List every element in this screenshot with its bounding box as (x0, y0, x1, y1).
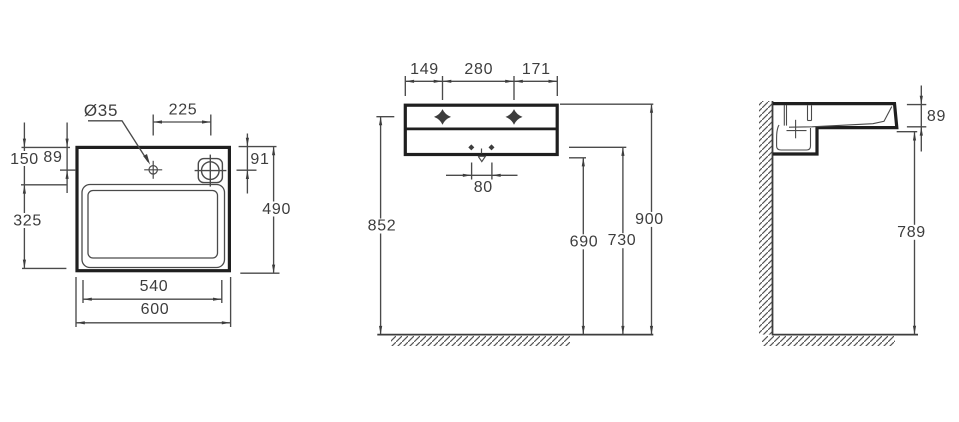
dimension line 150 (23, 123, 25, 198)
extension line top right (y=146.6) (239, 146, 277, 148)
labels right view (896, 108, 946, 241)
svg-text:80: 80 (474, 179, 493, 196)
arrows 600 (76, 321, 85, 324)
arrows 852 (379, 117, 382, 126)
extension line bottom rim (left, y=268.4) (22, 267, 66, 269)
arrows 171 (514, 80, 523, 83)
arrows 730 (621, 147, 624, 156)
dimensions of middle view (376, 76, 653, 335)
halo 730 (606, 233, 638, 248)
bowl inner profile (789, 107, 892, 128)
arrow 325 bottom (down, tip y=268.4) (23, 260, 26, 269)
top extension line (left side, y=147.4) (22, 146, 71, 148)
extension line bottom rim (right, y=273.2) (240, 272, 279, 274)
dimension line 325 (23, 198, 25, 269)
dimension line 900 (651, 104, 653, 334)
extension line 900 (560, 103, 653, 105)
dimension line 852 (380, 117, 382, 335)
svg-text:730: 730 (608, 232, 637, 249)
svg-text:150: 150 (10, 151, 39, 168)
arrows 540 (83, 298, 92, 301)
arrow 150 top (down, tip y=147.4) (23, 139, 26, 148)
arrow 789 top (up, tip 131.9) (913, 132, 916, 141)
dimension line 690 (582, 158, 584, 335)
tap hole (square with circle) (195, 155, 227, 187)
halo 900 (634, 212, 666, 227)
sump inner profile (777, 125, 811, 150)
dimension line 80 (446, 174, 518, 176)
floor line right (772, 334, 918, 336)
svg-text:171: 171 (522, 61, 551, 78)
extension lines 225 (152, 115, 154, 136)
drain centre cross (795, 120, 797, 139)
dimensions of left view (21, 115, 280, 328)
svg-text:490: 490 (262, 201, 291, 218)
dimension line 89 (left) (66, 123, 68, 194)
arrowheads right view (913, 96, 923, 335)
dimension line 789 (914, 132, 916, 335)
floor hatch right (762, 336, 895, 346)
basin outer rim (plan) (77, 147, 229, 270)
arrow 490 top (up, tip y=146.6) (272, 147, 275, 156)
arrow 789 bottom (down, tip 334.4) (913, 326, 916, 335)
extension lines 80 (471, 163, 473, 180)
arrow 89 bottom (up, tip 126.8) (920, 127, 923, 136)
leader line for Ø35 (88, 121, 148, 162)
arrow 490 bottom (down, tip y=273.2) (272, 265, 275, 274)
arrow 89 bottom (up, tip y=170.1) (66, 170, 69, 179)
basin front outline (405, 105, 557, 154)
svg-text:89: 89 (43, 149, 62, 166)
dimension line 149/280/171 (405, 80, 557, 82)
wall line (772, 101, 774, 335)
arrows 900 (650, 104, 653, 113)
halo 325 (12, 213, 43, 228)
extension line 690 (569, 157, 586, 159)
svg-text:852: 852 (368, 218, 397, 235)
faucet hole cross left (434, 109, 451, 125)
arrowheads middle view (379, 80, 653, 335)
dimension line 225 (153, 121, 211, 123)
svg-text:Ø35: Ø35 (84, 101, 118, 120)
wall hatch (759, 101, 773, 335)
halo 789 (896, 225, 928, 240)
floor line middle (377, 334, 653, 336)
svg-text:225: 225 (169, 101, 198, 118)
rim split line (405, 127, 557, 130)
dimension line 540 (83, 298, 222, 300)
svg-text:900: 900 (635, 211, 664, 228)
svg-text:600: 600 (141, 301, 170, 318)
svg-text:149: 149 (410, 61, 439, 78)
labels left view (9, 101, 292, 318)
arrow 89 top (down, tip y=147.4) (66, 139, 69, 148)
arrow 91 top (down, tip y=146.6) (246, 138, 249, 147)
basin bowl inner edge (88, 191, 218, 259)
faucet-hole centre mark (144, 161, 162, 179)
halo 690 (568, 234, 600, 249)
extension line tap-centre height (right, y=170.2) (237, 169, 257, 171)
halo 852 (366, 219, 398, 234)
extension line 852 top (376, 116, 394, 118)
arrows 690 (582, 158, 585, 167)
basin side profile (773, 104, 897, 154)
extension lines 540 (82, 280, 84, 303)
svg-text:690: 690 (570, 233, 599, 250)
faucet hole section (807, 105, 809, 120)
svg-text:325: 325 (13, 212, 42, 229)
extension line 789 top (897, 131, 918, 133)
dimension line 600 (76, 322, 231, 324)
arrow of Ø35 leader (143, 154, 150, 165)
svg-text:89: 89 (927, 108, 946, 125)
extension line 89 bottom (907, 126, 926, 128)
overflow channel lines (783, 105, 785, 126)
dimensions of right view (897, 86, 927, 335)
extension line inner-rim (y=184.8) (21, 184, 67, 186)
svg-text:789: 789 (897, 224, 926, 241)
arrows 80 (outside) (463, 174, 472, 177)
arrow 89 top (down, tip 104.6) (920, 96, 923, 105)
extension line 89 top (907, 104, 926, 106)
arrows 149 (405, 80, 414, 83)
dimension line 490 (273, 147, 275, 274)
extension line tap-centre height (left, y=170) (60, 169, 76, 171)
basin bowl outer edge (82, 185, 225, 268)
dimension line 730 (622, 147, 624, 334)
faucet hole cross right (506, 109, 523, 125)
fixing hole right (489, 144, 495, 150)
arrows 280 (443, 80, 452, 83)
halo 150 (9, 151, 40, 166)
drain outlet mark (478, 149, 485, 162)
halo 490 (261, 202, 292, 217)
svg-text:91: 91 (250, 151, 269, 168)
dimension line 91 (246, 134, 248, 194)
arrowheads left view (23, 120, 275, 324)
svg-text:540: 540 (140, 278, 169, 295)
svg-text:280: 280 (464, 61, 493, 78)
extension line 730 (569, 146, 626, 148)
dimension line 89 (920, 86, 922, 152)
extension lines 600 (75, 277, 77, 327)
fixing hole left (468, 144, 474, 150)
labels middle view (366, 61, 666, 251)
floor hatch middle (391, 336, 570, 346)
arrows 225 (153, 120, 162, 123)
arrow 91 bottom (up, tip y=170.2) (246, 170, 249, 179)
arrow shared 150/325 (up, tip y=184.8) (23, 185, 26, 194)
extension lines top dims (404, 76, 406, 96)
